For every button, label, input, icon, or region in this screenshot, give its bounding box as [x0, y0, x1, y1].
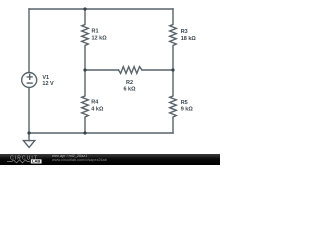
svg-text:LAB: LAB — [32, 159, 40, 164]
svg-text:6 kΩ: 6 kΩ — [123, 87, 136, 93]
svg-text:R5: R5 — [181, 100, 188, 106]
junction node top (R1/top rail) — [83, 7, 86, 10]
ground stem — [28, 133, 30, 141]
resistor R3 (zigzag + leads) — [170, 9, 177, 70]
svg-text:12 V: 12 V — [42, 81, 54, 87]
resistor R2 (horizontal zigzag) — [119, 67, 143, 74]
logo resistor zigzag — [7, 160, 30, 163]
wire top horizontal — [29, 8, 173, 10]
svg-text:R3: R3 — [181, 29, 188, 35]
logo LAB box — [31, 159, 42, 163]
V1 minus sign — [27, 82, 32, 84]
resistor R4 (zigzag + leads) — [82, 70, 89, 133]
svg-text:18 kΩ: 18 kΩ — [181, 36, 197, 42]
junction node bottom (R4/bottom rail) — [83, 131, 86, 134]
wire middle horizontal left lead — [85, 69, 119, 71]
junction node middle-left (R1/R2/R4) — [83, 68, 86, 71]
junction node bottom-left (V1/ground/bottom rail) — [27, 131, 30, 134]
svg-text:4 kΩ: 4 kΩ — [91, 106, 104, 112]
svg-text:R1: R1 — [92, 28, 99, 34]
svg-text:R4: R4 — [91, 100, 99, 106]
ground triangle — [23, 141, 34, 148]
V1 plus sign — [27, 75, 32, 80]
svg-text:12 kΩ: 12 kΩ — [92, 36, 108, 42]
wire left vertical upper (top rail to V1 top) — [28, 9, 30, 73]
wire middle horizontal right lead — [142, 69, 173, 71]
resistor R1 (zigzag + leads) — [82, 9, 89, 70]
wire left vertical lower (V1 bottom to bottom rail) — [28, 88, 30, 133]
svg-text:9 kΩ: 9 kΩ — [181, 107, 194, 113]
resistor R5 (zigzag + leads) — [170, 70, 177, 133]
svg-text:R2: R2 — [126, 80, 133, 86]
svg-text:www.circuitlab.com/c/sapez26ab: www.circuitlab.com/c/sapez26ab — [52, 158, 107, 162]
wire bottom horizontal — [29, 132, 173, 134]
junction node middle-right (R2/R3/R5) — [171, 68, 174, 71]
voltage source V1 circle — [22, 73, 37, 88]
